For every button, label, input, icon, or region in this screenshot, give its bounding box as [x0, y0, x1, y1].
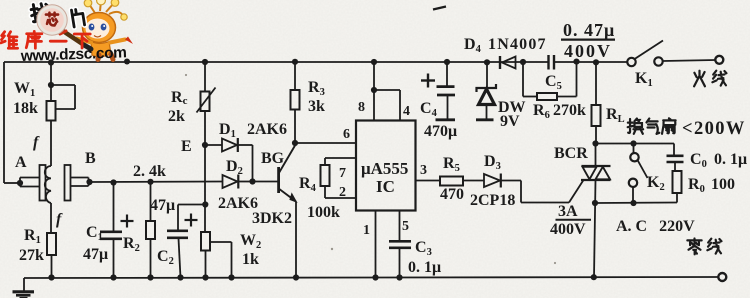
- svg-text:A: A: [15, 154, 27, 171]
- svg-text:47μ: 47μ: [150, 197, 175, 214]
- svg-text:1k: 1k: [242, 251, 259, 268]
- svg-text:0. 1μ: 0. 1μ: [714, 151, 747, 168]
- svg-text:BCR: BCR: [554, 145, 588, 162]
- svg-text:BG: BG: [261, 150, 285, 167]
- svg-text:2. 4k: 2. 4k: [133, 163, 166, 180]
- svg-text:3k: 3k: [308, 98, 325, 115]
- svg-text:3DK2: 3DK2: [252, 210, 292, 227]
- svg-text:IC: IC: [376, 177, 395, 196]
- svg-text:5: 5: [402, 219, 409, 234]
- svg-text:1: 1: [363, 223, 370, 238]
- svg-text:2AK6: 2AK6: [247, 121, 287, 138]
- svg-text:3: 3: [420, 163, 427, 178]
- svg-text:100k: 100k: [307, 204, 340, 221]
- svg-text:7: 7: [339, 166, 346, 181]
- svg-text:9V: 9V: [500, 113, 520, 130]
- svg-text:270k: 270k: [553, 102, 586, 119]
- svg-text:2CP18: 2CP18: [470, 192, 515, 209]
- svg-text:470: 470: [440, 186, 464, 203]
- svg-text:A. C 220V: A. C 220V: [616, 218, 695, 235]
- svg-text:2: 2: [339, 185, 346, 200]
- svg-text:8: 8: [358, 100, 365, 115]
- svg-text:3A: 3A: [558, 203, 578, 220]
- svg-text:4: 4: [403, 104, 410, 119]
- svg-text:μA555: μA555: [361, 159, 408, 178]
- svg-text:E: E: [181, 138, 192, 155]
- svg-text:0. 47μ: 0. 47μ: [563, 20, 615, 40]
- svg-text:0. 1μ: 0. 1μ: [408, 259, 441, 276]
- svg-text:100: 100: [711, 176, 735, 193]
- svg-text:B: B: [85, 150, 96, 167]
- svg-text:<200W: <200W: [682, 119, 746, 139]
- svg-text:27k: 27k: [19, 247, 44, 264]
- svg-text:2k: 2k: [168, 108, 185, 125]
- svg-text:18k: 18k: [13, 100, 38, 117]
- svg-text:1N4007: 1N4007: [488, 36, 547, 53]
- svg-text:6: 6: [343, 127, 350, 142]
- svg-text:400V: 400V: [564, 41, 612, 61]
- svg-text:470μ: 470μ: [424, 123, 457, 140]
- svg-text:47μ: 47μ: [83, 246, 108, 263]
- svg-text:400V: 400V: [550, 221, 586, 238]
